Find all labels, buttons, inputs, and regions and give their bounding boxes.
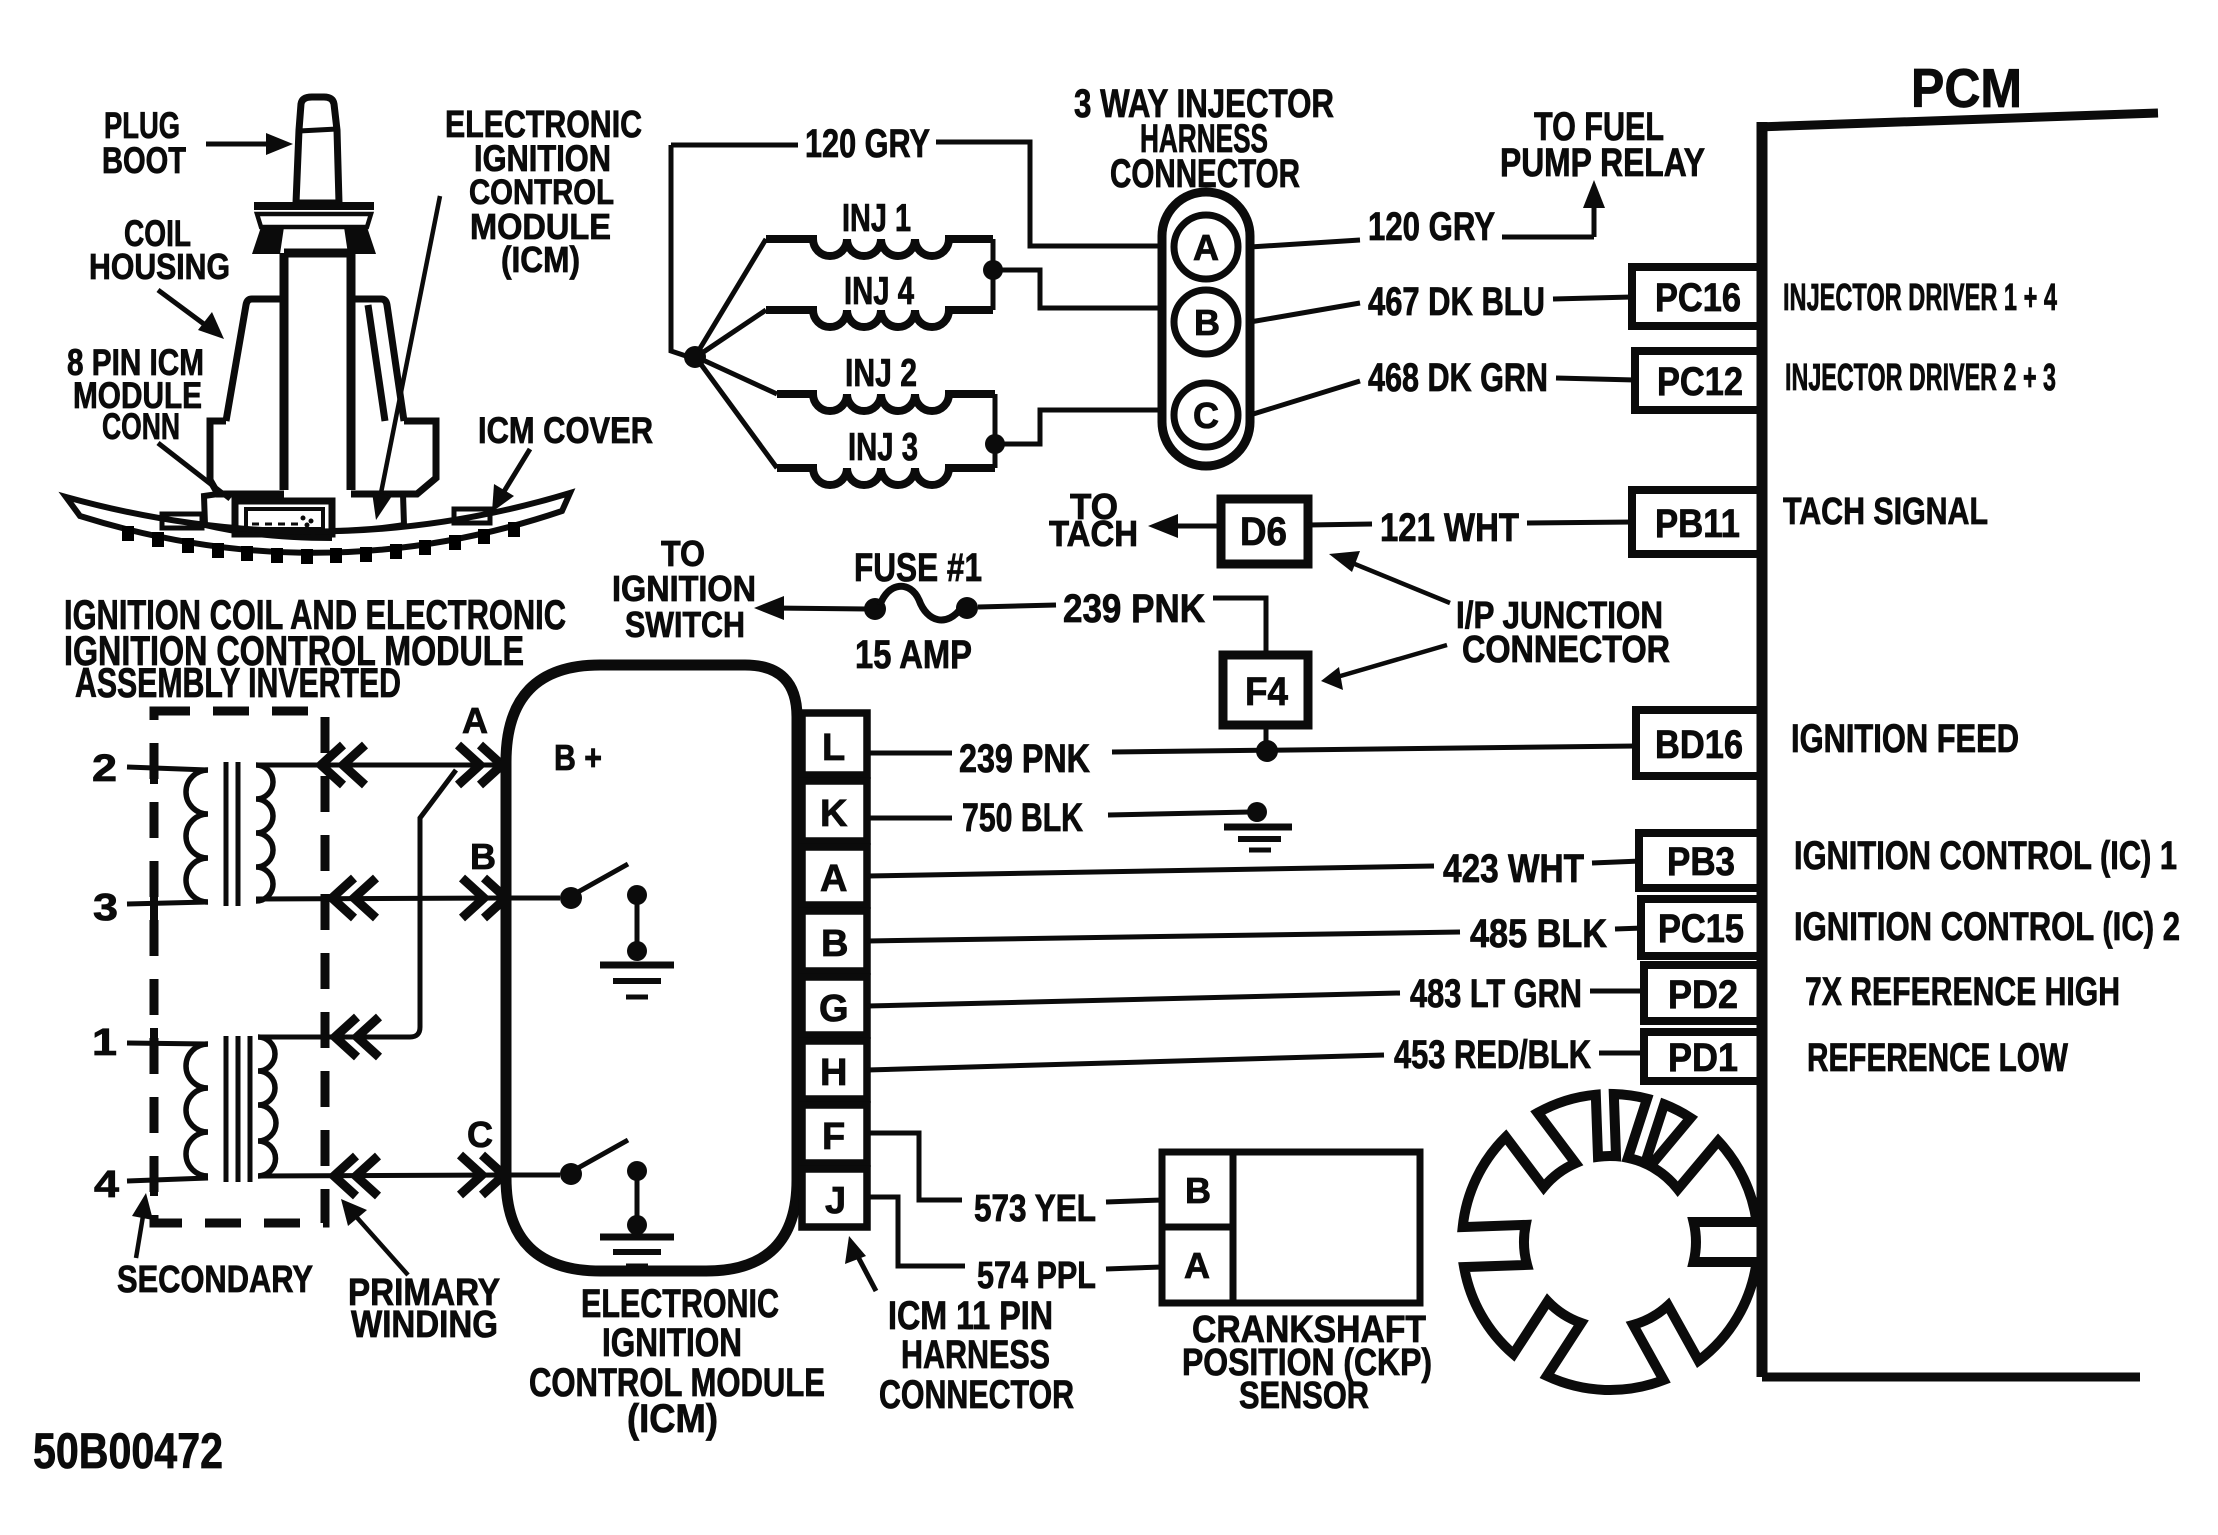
PCM connector BD16: [1636, 710, 1762, 776]
svg-text:SECONDARY: SECONDARY: [117, 1259, 313, 1301]
svg-text:B +: B +: [554, 737, 602, 778]
switch C (IC driver 2): [560, 1140, 647, 1235]
svg-text:B: B: [1194, 302, 1220, 343]
8 pin ICM module connector: [235, 501, 332, 534]
PCM connector PB3: [1639, 833, 1762, 888]
transformer T1 secondary winding: [186, 770, 208, 902]
label CRANKSHAFT POSITION (CKP) SENSOR: [1182, 1309, 1432, 1417]
wire 574 PPL pin J to CKP A: [867, 1197, 1162, 1269]
label COIL HOUSING: [89, 213, 230, 339]
chevron pair right row B: [462, 878, 506, 918]
PCM connector PD1: [1644, 1032, 1762, 1081]
label SECONDARY: [117, 1193, 313, 1301]
transformer T2 secondary winding: [186, 1044, 208, 1176]
svg-text:INJECTOR DRIVER 2 + 3: INJECTOR DRIVER 2 + 3: [1785, 357, 2056, 399]
ICM module slab: [204, 494, 404, 538]
svg-text:IGNITION: IGNITION: [612, 568, 756, 609]
label 8 PIN ICM MODULE CONN: [67, 342, 230, 499]
svg-text:IGNITION CONTROL (IC) 1: IGNITION CONTROL (IC) 1: [1794, 834, 2177, 878]
svg-text:F: F: [822, 1116, 845, 1158]
junction node injector common: [684, 346, 706, 368]
svg-text:PB11: PB11: [1655, 502, 1740, 546]
svg-text:ELECTRONIC: ELECTRONIC: [581, 1282, 779, 1326]
label TO IGNITION SWITCH: [612, 533, 756, 645]
wire 467 DK BLU: [1250, 297, 1632, 322]
svg-text:A: A: [1184, 1245, 1210, 1286]
label 3 WAY INJECTOR HARNESS CONNECTOR: [1074, 82, 1334, 196]
PCM connector PD2: [1644, 965, 1762, 1021]
svg-text:PD2: PD2: [1668, 973, 1738, 1017]
svg-text:574 PPL: 574 PPL: [977, 1255, 1096, 1297]
svg-text:PCM: PCM: [1911, 57, 2022, 119]
svg-text:C: C: [1193, 395, 1219, 436]
svg-text:WINDING: WINDING: [351, 1304, 498, 1346]
wire INJ2/INJ3 join: [995, 394, 1160, 468]
svg-text:(ICM): (ICM): [627, 1397, 718, 1441]
svg-text:SWITCH: SWITCH: [625, 604, 745, 645]
svg-text:REFERENCE LOW: REFERENCE LOW: [1807, 1036, 2068, 1080]
svg-text:485 BLK: 485 BLK: [1470, 912, 1607, 956]
PCM boundary: [1757, 113, 2158, 1377]
svg-text:INJ 2: INJ 2: [845, 352, 917, 395]
svg-text:J: J: [825, 1180, 846, 1222]
svg-text:IGNITION FEED: IGNITION FEED: [1791, 717, 2019, 761]
PCM connector PC16: [1632, 267, 1762, 326]
wire 485 BLK pin B to PC15: [867, 928, 1643, 941]
label TO FUEL PUMP RELAY: [1500, 105, 1705, 185]
transformer T1 core: [226, 762, 238, 906]
injector INJ 4: [766, 270, 993, 327]
svg-text:468 DK GRN: 468 DK GRN: [1368, 356, 1548, 400]
wire D6 to 121 WHT: [1308, 524, 1372, 525]
sensor CKP body: [1162, 1152, 1420, 1303]
svg-text:INJECTOR DRIVER 1 + 4: INJECTOR DRIVER 1 + 4: [1783, 277, 2057, 319]
PCM connector PC12: [1635, 351, 1762, 410]
wire B into switch: [506, 896, 560, 901]
coil tower collar: [252, 206, 376, 254]
svg-text:PC12: PC12: [1657, 360, 1743, 404]
pin L: [802, 713, 867, 775]
wire 239 PNK down to F4: [1213, 598, 1266, 655]
chevron pair left row B: [332, 878, 376, 918]
wire 120 GRY left branch: [671, 145, 798, 356]
svg-text:FUSE #1: FUSE #1: [854, 546, 982, 590]
wire 573 YEL pin F to CKP B: [867, 1133, 1162, 1202]
svg-text:F4: F4: [1245, 670, 1289, 714]
fuse FUSE #1 15 AMP: [854, 546, 982, 677]
connector terminal C: [1174, 383, 1238, 447]
svg-text:120 GRY: 120 GRY: [805, 122, 930, 166]
wire 453 RED/BLK pin H to PD1: [867, 1053, 1646, 1070]
wire F4 to ignition feed: [1264, 725, 1269, 748]
coil housing column: [284, 253, 351, 490]
chevron pair right row C: [460, 1155, 504, 1195]
svg-text:HOUSING: HOUSING: [89, 246, 230, 287]
wire 121 WHT to PB11: [1527, 522, 1634, 523]
label ELECTRONIC IGNITION CONTROL MODULE (ICM) top: [372, 104, 642, 520]
svg-text:121 WHT: 121 WHT: [1380, 506, 1519, 550]
svg-text:239 PNK: 239 PNK: [959, 737, 1090, 781]
svg-text:A: A: [1193, 227, 1219, 268]
coil housing left flare: [226, 299, 280, 421]
svg-text:D6: D6: [1240, 510, 1287, 554]
pin A: [802, 847, 867, 905]
junction node INJ1+INJ4: [983, 260, 1003, 280]
svg-text:50B00472: 50B00472: [33, 1423, 223, 1479]
label I/P JUNCTION CONNECTOR: [1321, 551, 1670, 690]
PCM connector PC15: [1641, 899, 1762, 956]
svg-text:BD16: BD16: [1655, 723, 1743, 767]
wire 483 LT GRN pin G to PD2: [867, 991, 1646, 1006]
junction node ground: [1247, 802, 1267, 822]
connector terminal B: [1174, 290, 1238, 354]
wire fan to INJ3: [700, 363, 777, 468]
svg-text:453 RED/BLK: 453 RED/BLK: [1394, 1033, 1591, 1077]
PCM connector PB11: [1632, 490, 1762, 554]
switch B (IC driver 1): [560, 864, 647, 961]
svg-text:750 BLK: 750 BLK: [962, 796, 1083, 840]
svg-text:PC16: PC16: [1655, 276, 1741, 320]
svg-text:CONN: CONN: [102, 406, 180, 447]
svg-text:H: H: [820, 1052, 847, 1094]
svg-text:HARNESS: HARNESS: [901, 1333, 1050, 1377]
junction node F4/BD16: [1256, 740, 1278, 762]
svg-text:C: C: [467, 1114, 493, 1155]
transformer T2 core: [226, 1036, 250, 1182]
svg-text:IGNITION: IGNITION: [602, 1321, 742, 1365]
ground after 750 BLK: [1224, 827, 1292, 850]
injector INJ 3: [777, 426, 995, 485]
wire 468 DK GRN: [1250, 378, 1635, 415]
svg-text:A: A: [820, 858, 847, 900]
node 3: [93, 887, 208, 929]
label ICM COVER: [478, 410, 653, 512]
ground under switch B: [600, 965, 674, 997]
chevron pair right row A: [458, 745, 502, 785]
node 1: [92, 1022, 208, 1064]
svg-text:239 PNK: 239 PNK: [1063, 587, 1205, 631]
svg-text:IGNITION CONTROL (IC) 2: IGNITION CONTROL (IC) 2: [1794, 905, 2180, 949]
label PLUG BOOT: [102, 105, 293, 181]
svg-text:B: B: [470, 836, 496, 877]
node 4: [94, 1164, 208, 1206]
plug boot: [296, 97, 339, 203]
svg-text:573 YEL: 573 YEL: [974, 1188, 1096, 1230]
connector terminal A: [1174, 215, 1238, 279]
base plate teeth: [122, 522, 520, 564]
reluctor wheel 7X: [1463, 1094, 1757, 1390]
junction node INJ2+INJ3: [985, 434, 1005, 454]
wire row C: [258, 1175, 504, 1176]
svg-text:ICM 11 PIN: ICM 11 PIN: [888, 1294, 1053, 1338]
svg-text:SENSOR: SENSOR: [1239, 1375, 1369, 1417]
coil housing right flare: [355, 299, 404, 421]
label PRIMARY WINDING: [341, 1199, 500, 1346]
svg-text:B: B: [1185, 1170, 1211, 1211]
junction F4 (I/P junction connector): [1223, 655, 1308, 725]
svg-text:PC15: PC15: [1658, 907, 1744, 951]
junction D6 (I/P junction connector): [1221, 499, 1308, 564]
wire 750 BLK pin K to ground: [867, 812, 1250, 818]
pin K: [802, 781, 867, 841]
svg-text:G: G: [819, 988, 849, 1030]
svg-text:3: 3: [93, 887, 118, 929]
node 2: [92, 748, 208, 790]
svg-text:7X REFERENCE HIGH: 7X REFERENCE HIGH: [1805, 970, 2120, 1014]
label ICM 11 PIN HARNESS CONNECTOR: [845, 1236, 1074, 1417]
wire 120 GRY to fuel pump relay: [1250, 180, 1605, 247]
wire fan to INJ2: [703, 360, 777, 394]
svg-text:2: 2: [92, 748, 117, 790]
svg-text:1: 1: [92, 1022, 117, 1064]
injector INJ 2: [777, 352, 995, 411]
pin G: [802, 977, 867, 1035]
op ICM outline: [506, 665, 797, 1271]
svg-text:A: A: [462, 700, 488, 741]
svg-text:K: K: [820, 793, 848, 835]
svg-text:INJ 4: INJ 4: [844, 270, 914, 313]
wire 120 GRY to connector A: [936, 142, 1160, 246]
wire 239 PNK pin L to BD16: [867, 746, 1636, 753]
wire fuse to ignition switch: [754, 596, 868, 620]
transformer T1 primary winding: [256, 765, 273, 901]
wire INJ1/INJ4 join: [993, 239, 1160, 310]
wire row B: [256, 898, 504, 899]
svg-text:TACH: TACH: [1049, 513, 1138, 554]
label TO TACH: [1049, 486, 1138, 554]
svg-text:INJ 3: INJ 3: [848, 426, 918, 469]
svg-text:15 AMP: 15 AMP: [855, 633, 972, 677]
svg-text:483 LT GRN: 483 LT GRN: [1410, 972, 1582, 1016]
svg-text:L: L: [822, 727, 845, 769]
svg-text:120 GRY: 120 GRY: [1368, 205, 1495, 249]
svg-text:CONNECTOR: CONNECTOR: [879, 1373, 1074, 1417]
pin J: [802, 1169, 867, 1227]
injector INJ 1: [766, 197, 993, 256]
chevron pair middle row: [335, 1017, 379, 1057]
svg-text:CONNECTOR: CONNECTOR: [1462, 629, 1670, 671]
svg-text:467 DK BLU: 467 DK BLU: [1368, 280, 1545, 324]
connector 3-way harness body: [1162, 192, 1250, 466]
wire C into switch: [506, 1173, 560, 1178]
svg-text:ICM COVER: ICM COVER: [478, 410, 653, 451]
transformer T2 primary winding: [258, 1037, 276, 1176]
svg-text:BOOT: BOOT: [102, 140, 186, 181]
svg-text:ASSEMBLY INVERTED: ASSEMBLY INVERTED: [75, 659, 401, 706]
ground under switch C: [600, 1237, 674, 1266]
svg-text:TACH SIGNAL: TACH SIGNAL: [1783, 491, 1988, 533]
pin B: [802, 911, 867, 971]
chevron pair left row C: [334, 1156, 378, 1196]
wire fuse to 239 PNK: [978, 605, 1056, 607]
pin H: [802, 1041, 867, 1099]
wire row A (B+ feed): [256, 763, 504, 768]
wire fan to INJ4: [702, 310, 766, 353]
chevron pair left row A: [321, 745, 365, 785]
transformer dashed boundary (secondary box): [154, 711, 325, 1223]
svg-text:PB3: PB3: [1667, 840, 1735, 884]
svg-text:4: 4: [94, 1164, 119, 1206]
wire 423 WHT pin A to PB3: [867, 861, 1641, 876]
svg-text:(ICM): (ICM): [501, 239, 580, 280]
caption ignition coil assembly: [64, 591, 566, 706]
label ELECTRONIC IGNITION CONTROL MODULE (ICM) bottom: [529, 1282, 825, 1441]
pin F: [802, 1105, 867, 1163]
wire T2 primary to B+ riser: [258, 770, 456, 1037]
svg-text:423 WHT: 423 WHT: [1443, 847, 1584, 891]
svg-text:PD1: PD1: [1668, 1036, 1738, 1080]
wire D6 to tach: [1148, 514, 1221, 538]
ICM cover base plate: [66, 493, 570, 553]
svg-text:PUMP RELAY: PUMP RELAY: [1500, 141, 1705, 185]
wire fan to INJ1: [699, 239, 766, 350]
svg-text:B: B: [821, 923, 848, 965]
svg-text:INJ 1: INJ 1: [842, 197, 911, 240]
coil lower body: [210, 421, 436, 494]
